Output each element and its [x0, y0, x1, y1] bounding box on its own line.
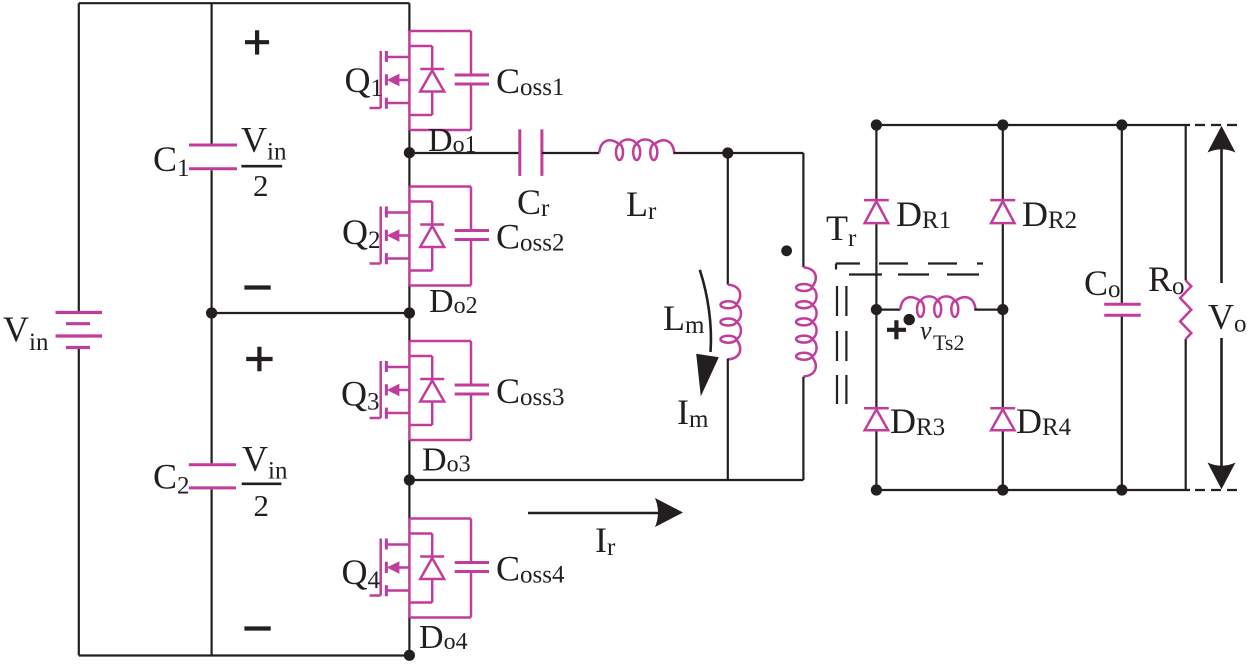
inductor Lr [599, 140, 674, 160]
svg-text:v: v [920, 316, 932, 345]
wire left rail lower [78, 349, 80, 656]
node Lr-Lm junction [722, 147, 733, 158]
secondary bottom rail [876, 489, 1190, 491]
svg-text:Coss1: Coss1 [496, 61, 564, 101]
wire Lr to node [673, 152, 728, 154]
wire top rail [79, 2, 410, 4]
wire Do3 to transformer bottom [409, 479, 803, 481]
output voltage arrow Vo shaft [1220, 145, 1223, 470]
svg-text:Q2: Q2 [342, 212, 381, 254]
diode DR4 [990, 408, 1015, 430]
node Do3 [404, 474, 415, 485]
svg-text:Q1: Q1 [345, 60, 384, 102]
transformer core dashed vertical pair [837, 286, 846, 404]
transistor Q2 MOSFET with body diode and capacitor Coss2 [370, 187, 490, 286]
wire Lm upper [727, 153, 729, 285]
wire Cr to Lr [542, 152, 599, 154]
diode DR3 [864, 408, 889, 430]
node secondary top left [871, 119, 882, 130]
polarity minus lower [244, 626, 270, 630]
transformer secondary winding vTs2 [900, 296, 975, 316]
svg-text:DR4: DR4 [1016, 401, 1072, 441]
capacitor C2 [189, 465, 236, 488]
svg-text:Ir: Ir [595, 520, 616, 561]
svg-text:Ts2: Ts2 [933, 330, 964, 355]
svg-text:Vin: Vin [3, 309, 49, 356]
wire secondary mid right [974, 309, 1003, 311]
node secondary top right [1116, 119, 1127, 130]
current arrow Ir line [528, 512, 658, 515]
current arrow Ir head [655, 498, 683, 527]
svg-text:Coss3: Coss3 [496, 371, 564, 411]
svg-text:Lr: Lr [626, 184, 657, 225]
svg-text:DR3: DR3 [890, 401, 945, 441]
polarity plus secondary [887, 320, 906, 339]
output voltage arrow Vo top head [1208, 126, 1236, 153]
secondary top rail dashed extension [1195, 124, 1237, 126]
svg-text:Im: Im [677, 392, 709, 433]
svg-text:DR2: DR2 [1022, 194, 1077, 234]
svg-text:Lm: Lm [663, 298, 705, 339]
wire middle rail seg3 [211, 489, 213, 655]
wire middle rail seg2 [211, 170, 213, 463]
node secondary bottom left [871, 484, 882, 495]
wire secondary mid left [876, 309, 900, 311]
current arrow Im curve [700, 270, 711, 352]
svg-text:Co: Co [1084, 263, 1121, 303]
node Do4 [404, 650, 415, 661]
wire Lm lower [727, 359, 729, 480]
wire middle rail seg1 [211, 3, 213, 143]
svg-text:Q3: Q3 [341, 374, 380, 416]
polarity minus upper [244, 285, 270, 289]
svg-text:Coss4: Coss4 [496, 549, 565, 589]
svg-text:Vin: Vin [241, 120, 287, 166]
wire left rail upper [78, 3, 80, 311]
diode DR1 [864, 200, 889, 223]
transistor Q4 MOSFET with body diode and capacitor Coss4 [370, 519, 490, 618]
svg-text:Vin: Vin [242, 439, 288, 485]
polarity dot primary [781, 245, 792, 256]
node secondary bottom right [1116, 484, 1127, 495]
svg-text:Cr: Cr [517, 182, 550, 222]
polarity plus lower [246, 347, 272, 371]
transformer core dashed line top row 1 [836, 264, 983, 270]
polarity plus upper [245, 30, 269, 54]
node secondary mid left [871, 304, 882, 315]
node secondary bottom mid [997, 484, 1008, 495]
secondary top rail [876, 124, 1190, 126]
output voltage arrow Vo bottom head [1208, 463, 1236, 490]
transistor Q3 MOSFET with body diode and capacitor Coss3 [370, 341, 490, 440]
svg-text:Coss2: Coss2 [496, 217, 564, 257]
current arrow Im head [696, 354, 719, 397]
node mid (junction of C1/C2) [206, 307, 217, 318]
node Do2 [404, 307, 415, 318]
wire mid horizontal (C-branch to Do2) [212, 312, 410, 314]
capacitor C1 [189, 145, 237, 169]
svg-text:Q4: Q4 [342, 552, 381, 594]
svg-text:2: 2 [254, 488, 270, 523]
label Vin/2 upper [241, 120, 287, 204]
svg-text:Do3: Do3 [422, 442, 471, 479]
diode DR2 [990, 200, 1015, 223]
transistor Q1 MOSFET with body diode and capacitor Coss1 [370, 31, 490, 130]
wire primary bottom [802, 377, 804, 480]
capacitor Cr [520, 129, 542, 176]
node secondary top mid [997, 119, 1008, 130]
wire bottom rail [79, 654, 410, 656]
transformer core dashed line top row 2 [849, 273, 979, 275]
node Do1 [404, 147, 415, 158]
svg-text:Do4: Do4 [419, 619, 468, 656]
svg-text:Tr: Tr [826, 208, 857, 252]
label Vin/2 lower [242, 439, 288, 524]
svg-text:Ro: Ro [1148, 259, 1185, 300]
wire Do1 to Cr [409, 152, 519, 154]
resistor Ro zigzag [1180, 281, 1191, 340]
voltage source Vin battery [56, 313, 103, 348]
wire primary top [802, 153, 804, 267]
wire rectifier leg 1 [875, 125, 877, 490]
polarity dot secondary [904, 314, 915, 325]
capacitor Co [1104, 304, 1141, 315]
svg-text:Do2: Do2 [429, 283, 478, 320]
inductor Lm [721, 285, 741, 360]
transformer primary winding [796, 267, 816, 376]
svg-text:Vo: Vo [1208, 297, 1247, 338]
secondary bottom rail dashed extension [1195, 489, 1237, 491]
wire Ro leg [1185, 125, 1187, 490]
svg-text:C2: C2 [153, 457, 190, 500]
svg-text:C1: C1 [153, 139, 190, 182]
svg-text:2: 2 [253, 168, 269, 203]
svg-text:DR1: DR1 [896, 194, 951, 234]
wire node to primary top [728, 152, 804, 154]
wire rectifier leg 2 [1002, 125, 1004, 490]
wire Q-rail segments [408, 3, 410, 655]
node secondary mid right [997, 304, 1008, 315]
wire Co leg [1121, 125, 1123, 490]
